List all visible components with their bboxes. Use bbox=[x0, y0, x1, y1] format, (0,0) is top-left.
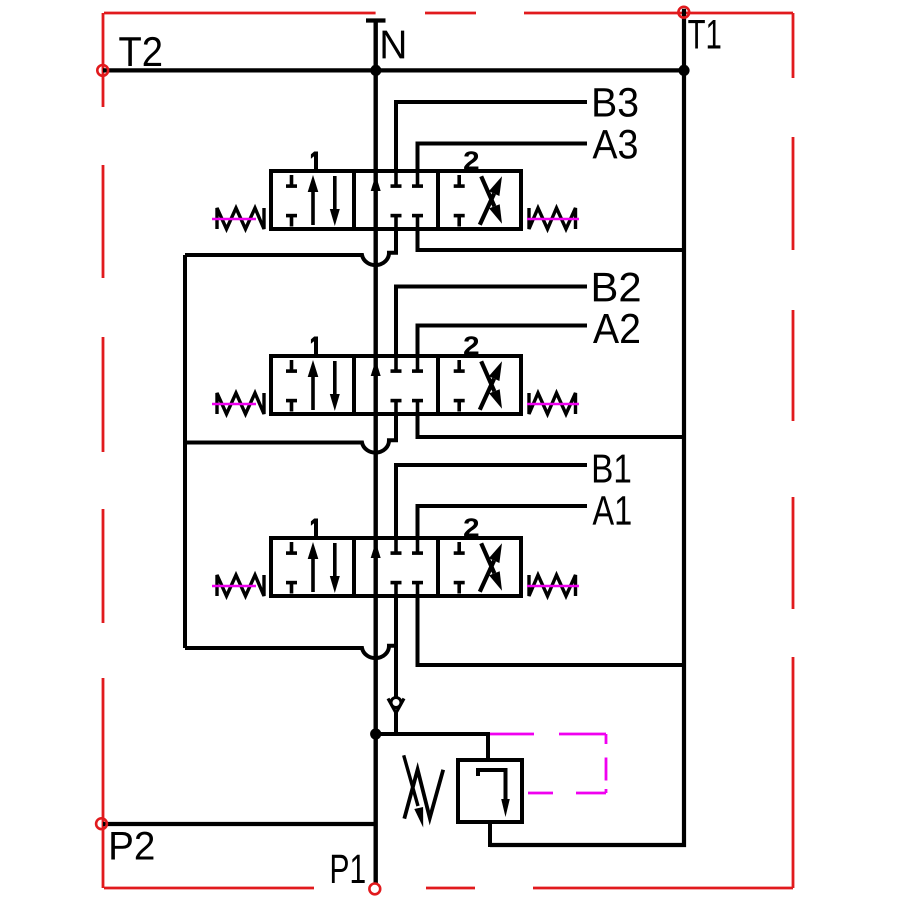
valve V3 neutral blocked port bottom left bbox=[391, 583, 402, 596]
port T2 red circle bbox=[97, 65, 108, 76]
relief valve RV1 adjustment arrow bbox=[404, 755, 418, 806]
valve V1 neutral blocked port bottom right bbox=[412, 216, 423, 229]
red dashed enclosure border bottom bbox=[104, 887, 793, 890]
red dashed enclosure border left bbox=[102, 13, 105, 888]
valve V2 spool position number 2 bbox=[464, 336, 478, 354]
valve V3 neutral blocked port bottom right bbox=[412, 583, 423, 596]
valve V2 right spring drain line magenta bbox=[527, 403, 579, 406]
wire A2 work port bbox=[418, 326, 588, 357]
N line top cap bbox=[366, 18, 386, 22]
valve V3 neutral blocked port top right bbox=[412, 540, 423, 553]
valve V1 position 1 up flow arrow bbox=[308, 175, 319, 225]
valve V2 position 2 crossed arrow down-right bbox=[481, 361, 502, 408]
wire bypass gallery to valve V3 with hop over N line bbox=[185, 596, 396, 658]
label A3 bbox=[593, 130, 637, 159]
node junction N x relief branch bbox=[370, 728, 381, 739]
directional valve V1 body box bbox=[271, 171, 521, 229]
wire B2 work port bbox=[396, 287, 587, 357]
valve V3 spool position number 1 bbox=[311, 519, 318, 537]
valve V2 position 1 blocked port top bbox=[286, 360, 297, 371]
pilot line magenta dashed right run bbox=[605, 734, 608, 793]
valve V2 neutral section flow arrow head on N line bbox=[371, 360, 381, 376]
valve V3 position 2 crossed arrow down-right bbox=[481, 543, 502, 590]
red dashed enclosure border right bbox=[792, 13, 795, 888]
valve V2 neutral blocked port bottom right bbox=[412, 401, 423, 414]
port T1 red circle bbox=[678, 7, 689, 18]
valve V2 neutral blocked port top right bbox=[412, 358, 423, 371]
wire B3 work port bbox=[396, 102, 587, 171]
valve V2 position 1 blocked port bottom bbox=[286, 401, 297, 412]
wire relief valve outlet bbox=[488, 822, 492, 847]
label T1 bbox=[688, 20, 720, 49]
valve V3 position 1 down flow arrow bbox=[330, 543, 340, 593]
valve V1 neutral blocked port top left bbox=[391, 173, 402, 186]
valve V1 right return spring bbox=[529, 208, 576, 229]
valve V3 position 1 blocked port top bbox=[286, 542, 297, 553]
valve V1 neutral blocked port bottom left bbox=[391, 216, 402, 229]
valve V1 position 1 blocked port top bbox=[286, 175, 297, 186]
valve V1 neutral section flow arrow head on N line bbox=[371, 175, 381, 191]
valve V1 spool position number 2 bbox=[464, 151, 478, 169]
wire left parallel gallery vertical bbox=[183, 255, 187, 648]
valve V2 right return spring bbox=[529, 393, 576, 414]
wire valve V3 tank return bbox=[418, 596, 685, 665]
check valve CV1 ball bbox=[391, 698, 401, 708]
valve V3 position 1 up flow arrow bbox=[308, 542, 319, 592]
port P1 red circle bbox=[369, 884, 380, 895]
wire A3 work port bbox=[418, 144, 588, 172]
relief valve RV1 internal flow arrow bbox=[478, 770, 506, 801]
valve V1 position 2 crossed arrow up-right bbox=[480, 176, 502, 224]
wire valve V1 tank return bbox=[418, 229, 685, 250]
valve V3 neutral section flow arrow head on N line bbox=[371, 542, 381, 558]
wire relief valve inlet branch bbox=[376, 734, 488, 760]
valve V3 position 1 blocked port bottom bbox=[286, 583, 297, 594]
valve V3 spool position number 2 bbox=[464, 518, 478, 536]
valve V1 position 2 blocked port bottom bbox=[454, 216, 465, 227]
directional valve V2 body box bbox=[271, 356, 521, 414]
wire check valve lower lead bbox=[394, 712, 398, 736]
wire T1 tank line vertical and relief return run bbox=[490, 9, 684, 845]
relief valve RV1 adjustable spring zigzag bbox=[404, 770, 443, 819]
valve V1 neutral blocked port top right bbox=[412, 173, 423, 186]
label B3 bbox=[594, 88, 637, 117]
wire bypass gallery to valve V1 with hop over N line bbox=[185, 229, 396, 265]
node junction T1 x T2 bbox=[678, 65, 689, 76]
valve V2 position 1 up flow arrow bbox=[308, 360, 319, 410]
valve V2 position 2 crossed arrow up-right bbox=[480, 361, 502, 409]
valve V2 neutral blocked port top left bbox=[391, 358, 402, 371]
valve V3 right return spring bbox=[529, 575, 576, 596]
valve V1 left return spring bbox=[217, 208, 264, 229]
wire T2 tank line horizontal bbox=[103, 68, 684, 72]
valve V1 right spring drain line magenta bbox=[527, 218, 579, 221]
valve V1 spool position number 1 bbox=[311, 152, 318, 170]
label T2 bbox=[119, 37, 161, 66]
valve V2 position 1 down flow arrow bbox=[330, 361, 340, 411]
wire check valve upper lead bbox=[394, 647, 398, 698]
valve V2 neutral blocked port bottom left bbox=[391, 401, 402, 414]
valve V1 position 2 crossed arrow down-right bbox=[481, 176, 502, 223]
label A1 bbox=[593, 496, 631, 524]
valve V2 spool position number 1 bbox=[311, 337, 318, 355]
valve V3 neutral blocked port top left bbox=[391, 540, 402, 553]
valve V3 position 2 blocked port top bbox=[454, 542, 465, 553]
check valve CV1 seat bbox=[388, 699, 404, 714]
valve V3 left spring drain line magenta bbox=[212, 585, 256, 588]
node junction N x T2 bbox=[370, 65, 381, 76]
wire P2 line horizontal bbox=[103, 822, 376, 826]
valve V3 right spring drain line magenta bbox=[527, 585, 579, 588]
valve V2 position 2 blocked port bottom bbox=[454, 401, 465, 412]
wire B1 work port bbox=[396, 465, 587, 538]
relief valve RV1 body bbox=[458, 760, 522, 822]
label B1 bbox=[594, 455, 630, 483]
valve V1 position 1 blocked port bottom bbox=[286, 216, 297, 227]
red dashed enclosure border top bbox=[104, 12, 793, 15]
valve V3 left return spring bbox=[217, 575, 264, 596]
label P1 bbox=[332, 855, 365, 883]
label A2 bbox=[593, 314, 639, 343]
label P2 bbox=[111, 832, 153, 860]
directional valve V3 body box bbox=[271, 538, 521, 596]
valve V2 left spring drain line magenta bbox=[212, 403, 256, 406]
pilot line magenta dashed top run bbox=[490, 733, 606, 736]
label B2 bbox=[594, 272, 640, 301]
label N bbox=[382, 31, 404, 59]
wire bypass gallery to valve V2 with hop over N line bbox=[185, 414, 396, 453]
valve V3 position 2 blocked port bottom bbox=[454, 583, 465, 594]
valve V3 position 2 crossed arrow up-right bbox=[480, 543, 502, 591]
wire A1 work port bbox=[418, 506, 588, 538]
valve V2 left return spring bbox=[217, 393, 264, 414]
pilot line magenta dashed bottom run bbox=[528, 792, 606, 795]
valve V1 left spring drain line magenta bbox=[212, 218, 256, 221]
valve V1 position 2 blocked port top bbox=[454, 175, 465, 186]
valve V2 position 2 blocked port top bbox=[454, 360, 465, 371]
valve V1 position 1 down flow arrow bbox=[330, 176, 340, 226]
wire N inlet line vertical bbox=[374, 21, 378, 884]
wire valve V2 tank return bbox=[418, 414, 685, 437]
port P2 red circle bbox=[96, 818, 107, 829]
